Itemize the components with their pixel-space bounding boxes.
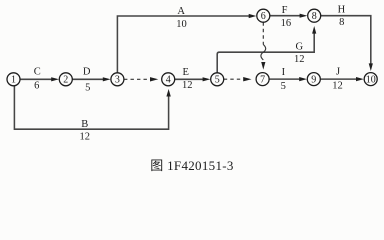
- svg-text:J: J: [336, 67, 340, 78]
- svg-text:2: 2: [63, 75, 68, 86]
- svg-text:6: 6: [261, 11, 266, 22]
- svg-text:12: 12: [294, 54, 305, 65]
- svg-text:E: E: [182, 67, 188, 78]
- svg-text:F: F: [282, 5, 288, 16]
- svg-text:B: B: [81, 119, 88, 130]
- svg-text:4: 4: [166, 75, 171, 86]
- svg-text:5: 5: [85, 83, 90, 94]
- svg-text:16: 16: [281, 18, 292, 29]
- svg-text:D: D: [83, 67, 91, 78]
- svg-text:A: A: [177, 6, 185, 17]
- svg-text:5: 5: [215, 75, 220, 86]
- svg-text:12: 12: [182, 80, 193, 91]
- svg-text:8: 8: [312, 11, 317, 22]
- svg-text:6: 6: [34, 80, 39, 91]
- svg-text:10: 10: [366, 74, 376, 85]
- svg-text:C: C: [34, 67, 41, 78]
- svg-text:8: 8: [339, 17, 344, 28]
- svg-text:7: 7: [260, 74, 265, 85]
- svg-text:G: G: [296, 42, 304, 53]
- svg-text:12: 12: [80, 132, 91, 143]
- svg-text:9: 9: [311, 74, 316, 85]
- svg-text:10: 10: [176, 19, 187, 30]
- svg-text:5: 5: [281, 81, 286, 92]
- svg-text:3: 3: [115, 75, 120, 86]
- svg-text:图 1F420151-3: 图 1F420151-3: [150, 158, 233, 173]
- svg-text:I: I: [282, 67, 286, 78]
- svg-text:1: 1: [11, 75, 16, 86]
- svg-text:H: H: [338, 5, 346, 16]
- svg-text:12: 12: [332, 81, 343, 92]
